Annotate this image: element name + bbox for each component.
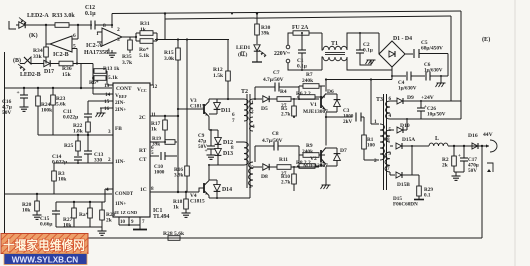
- svg-text:D17: D17: [44, 69, 54, 75]
- wire V4 emitter: [208, 196, 210, 199]
- svg-text:IC2-A: IC2-A: [86, 43, 103, 49]
- ground pin16: [96, 108, 106, 117]
- resistor R6: [297, 95, 321, 100]
- capacitor C7: [255, 83, 299, 100]
- svg-text:FU 2A: FU 2A: [292, 25, 309, 31]
- svg-text:D1 - D4: D1 - D4: [393, 36, 412, 42]
- wire rail F riser: [104, 194, 106, 202]
- label CONDT: [115, 192, 134, 197]
- wire right drop x451: [450, 16, 452, 101]
- node railC x187: [186, 38, 188, 40]
- wire CT stub: [150, 155, 159, 157]
- svg-text:CONT: CONT: [116, 86, 132, 92]
- T3 sec2: [386, 130, 391, 142]
- wire R31 right common: [156, 33, 158, 41]
- svg-text:240k: 240k: [302, 78, 313, 84]
- diode D16: [472, 143, 478, 149]
- wire T2 P2 top stub: [236, 141, 244, 143]
- svg-text:50V: 50V: [2, 110, 11, 116]
- svg-text:1.5k: 1.5k: [213, 73, 224, 79]
- label R5 2.7k: [281, 106, 290, 117]
- svg-text:0.1: 0.1: [424, 192, 431, 198]
- node rail F Ra: [89, 201, 91, 203]
- label pin 2: [108, 157, 111, 163]
- svg-text:50V: 50V: [468, 168, 477, 174]
- label T2 pin 8: [231, 145, 234, 151]
- svg-text:RT: RT: [139, 148, 147, 154]
- svg-text:1: 1: [251, 100, 254, 106]
- node L C17: [463, 145, 465, 147]
- node pin2 C14: [77, 162, 79, 164]
- T2 winding S1: [250, 99, 253, 113]
- label IC1 TL494: [153, 208, 170, 220]
- label T2: [241, 89, 248, 95]
- node D10 junction: [406, 118, 408, 120]
- label 2IN-: [115, 100, 125, 106]
- label D5: [261, 106, 268, 112]
- label pin 9: [131, 220, 134, 225]
- svg-text:D15B: D15B: [397, 182, 410, 188]
- node D15 join: [411, 145, 413, 147]
- label R3 10k: [58, 171, 66, 183]
- wire 24V return: [390, 118, 461, 120]
- terminal AC bottom: [286, 59, 290, 63]
- wire opamp out: [122, 36, 136, 38]
- node V4 coll join: [208, 164, 210, 166]
- svg-text:68μ/450V: 68μ/450V: [421, 46, 443, 52]
- svg-text:1C: 1C: [140, 187, 147, 193]
- ground R26: [33, 214, 42, 219]
- label Rb*: [89, 80, 99, 86]
- svg-text:LED1: LED1: [236, 45, 251, 51]
- svg-text:10μ/50V: 10μ/50V: [427, 111, 446, 117]
- svg-text:33k: 33k: [33, 54, 43, 60]
- transistor V2: [321, 148, 326, 165]
- wire C5 drop: [447, 54, 449, 77]
- node rail F R27: [73, 201, 75, 203]
- node FB R25: [77, 134, 79, 136]
- label R29 0.1: [424, 187, 433, 198]
- ground C4C6: [436, 76, 446, 87]
- label pin 16: [104, 106, 110, 112]
- label R24 100k: [41, 102, 52, 114]
- T2 winding S3: [249, 162, 254, 186]
- label T3 pin 9: [389, 151, 392, 157]
- wire pin4 drop: [104, 189, 106, 194]
- svg-text:IC2-B: IC2-B: [53, 52, 69, 58]
- node rail D R23: [52, 87, 54, 89]
- label T3 pin 4: [389, 113, 392, 119]
- svg-text:16: 16: [104, 106, 110, 112]
- wire R9R8 left: [298, 155, 300, 167]
- capacitor C12: [91, 21, 112, 30]
- wire V1 emitter: [325, 113, 327, 118]
- svg-text:VREF: VREF: [115, 93, 127, 99]
- capacitor C14: [74, 157, 82, 163]
- label 27: [281, 171, 287, 177]
- wire sec4 wire: [390, 174, 395, 176]
- node C12 right junction: [77, 24, 79, 26]
- wire railA to pin8: [111, 14, 113, 29]
- label T2 pin 2: [251, 109, 254, 115]
- ground output: [452, 172, 461, 180]
- svg-text:1000: 1000: [154, 169, 165, 175]
- resistor R1: [362, 135, 367, 160]
- svg-text:2.7k: 2.7k: [281, 111, 290, 117]
- label R27 10k: [63, 217, 73, 229]
- svg-text:MJE13007: MJE13007: [303, 163, 328, 169]
- resistor R15: [176, 40, 181, 61]
- capacitor C9: [205, 130, 216, 154]
- resistor R36: [57, 61, 93, 66]
- label R36 15k: [62, 66, 72, 78]
- svg-text:1k: 1k: [151, 127, 157, 133]
- label Ro* 5.1k: [139, 47, 150, 59]
- diode D11: [214, 99, 221, 114]
- node V3 base x178: [177, 108, 179, 110]
- svg-text:3.9k: 3.9k: [174, 172, 183, 178]
- label C17 470u 50V: [468, 157, 479, 174]
- wire C4C6 row: [392, 75, 406, 77]
- resistor R28: [100, 202, 105, 227]
- svg-text:4: 4: [252, 124, 255, 130]
- label T3 pin 1: [374, 119, 377, 125]
- label C5 68u450V: [421, 40, 443, 52]
- diode D5: [263, 96, 277, 102]
- wire T1 out bottom: [347, 57, 392, 70]
- label R11: [279, 157, 288, 163]
- label RT: [139, 148, 147, 154]
- label HA17358: [84, 50, 108, 56]
- node 1C R18: [185, 191, 187, 193]
- svg-text:2IN-: 2IN-: [115, 100, 125, 106]
- capacitor C4: [407, 72, 425, 81]
- svg-text:44V: 44V: [483, 132, 493, 138]
- wire V1 collector: [325, 80, 327, 92]
- node pin11 x178: [177, 115, 179, 117]
- label R18 1k: [173, 199, 183, 211]
- label C3 1000 2kV: [343, 108, 354, 125]
- label node (K): [29, 32, 38, 39]
- wire pin13 stub: [107, 84, 113, 86]
- label D13: [223, 151, 233, 157]
- svg-text:3: 3: [108, 129, 111, 135]
- svg-text:240k: 240k: [302, 149, 313, 155]
- wire bridge top in: [378, 33, 380, 54]
- node bridge c4row: [391, 75, 393, 77]
- node rail E R26: [36, 193, 38, 195]
- wire D7 bottom: [326, 165, 337, 167]
- wire D13 to T2: [218, 164, 244, 166]
- svg-text:15: 15: [104, 99, 110, 105]
- svg-text:WWW.SYLXB.CN: WWW.SYLXB.CN: [12, 256, 78, 265]
- label T2 pin 5: [251, 165, 254, 171]
- resistor R4: [277, 97, 319, 102]
- resistor R25: [76, 135, 81, 156]
- wire T1 in top: [322, 33, 323, 50]
- label 2C: [139, 115, 146, 121]
- node V1 collector rail: [325, 78, 327, 80]
- label V1: [310, 102, 317, 108]
- diode D12: [215, 130, 222, 144]
- label C9 47u 50V: [198, 133, 207, 150]
- label R33 3.0k: [52, 13, 75, 19]
- label C10 1000: [154, 164, 165, 175]
- resistor R33: [30, 23, 92, 28]
- capacitor C26: [417, 101, 427, 119]
- label VREF: [115, 93, 127, 99]
- label R2 2k: [442, 157, 449, 169]
- LED D LED2-A: [16, 18, 30, 29]
- label 1C: [140, 187, 147, 193]
- node railA R30: [256, 12, 258, 14]
- wire R36 to rail D: [80, 64, 82, 89]
- svg-text:LED2-B: LED2-B: [20, 72, 41, 78]
- label C4 1u630V: [398, 80, 417, 91]
- label E1E2GND: [114, 210, 138, 215]
- svg-text:CT: CT: [139, 157, 147, 163]
- svg-text:0.022μ: 0.022μ: [63, 115, 78, 121]
- svg-text:V2: V2: [310, 156, 317, 162]
- node midpoint: [325, 116, 327, 118]
- svg-text:50V: 50V: [198, 144, 207, 150]
- node 24V C26: [420, 100, 422, 102]
- svg-text:(B): (B): [13, 57, 21, 64]
- svg-text:7: 7: [232, 118, 235, 124]
- label R10 2.7k: [281, 174, 290, 185]
- svg-text:0.1μ: 0.1μ: [85, 11, 96, 17]
- label C7: [273, 70, 280, 76]
- wire D15B riser: [411, 146, 413, 175]
- label pin 5 IC2-B: [73, 44, 76, 50]
- wire R31 left common: [135, 33, 137, 41]
- svg-text:十堰家电维修网: 十堰家电维修网: [3, 238, 85, 253]
- resistor R19: [165, 140, 177, 145]
- T3 sec1: [386, 101, 391, 119]
- watermark red band: [1, 234, 88, 254]
- label +24V: [421, 95, 434, 101]
- label R12 1.5k: [213, 67, 224, 79]
- wire R7R6 right: [320, 86, 322, 97]
- resistor R2: [452, 146, 457, 172]
- svg-text:8: 8: [103, 23, 106, 29]
- svg-text:FB: FB: [115, 126, 122, 132]
- LED D LED1: [254, 45, 266, 62]
- node R13 left: [92, 77, 94, 79]
- node railC R15: [177, 38, 179, 40]
- resistor R30: [255, 12, 260, 44]
- resistor R27: [72, 202, 77, 227]
- ground R28: [98, 227, 107, 235]
- wire pin16 stub: [100, 107, 113, 109]
- svg-text:Ra*: Ra*: [79, 212, 89, 218]
- wire feedback riser: [481, 146, 483, 238]
- wire D6 bottom: [326, 111, 337, 113]
- wire RT stub: [150, 141, 165, 143]
- bridge D1-D4: [379, 41, 405, 67]
- label MJE13007: [303, 163, 328, 169]
- page edge line: [514, 0, 516, 266]
- svg-text:2IN+: 2IN+: [115, 107, 126, 113]
- label C1 0.1u: [297, 58, 307, 70]
- diode D10: [397, 127, 407, 133]
- wire rail B drop from rail A: [164, 14, 166, 40]
- svg-text:R33 3.0k: R33 3.0k: [52, 13, 75, 19]
- wire R29 branch: [412, 174, 419, 176]
- wire right drop x461: [460, 11, 462, 119]
- ground pin7: [133, 225, 147, 230]
- resistor R7: [299, 84, 321, 89]
- node pin1 rail: [370, 78, 372, 80]
- node pin8 top: [111, 24, 113, 26]
- svg-text:3: 3: [117, 37, 120, 43]
- label L: [435, 136, 439, 142]
- svg-text:1.8k: 1.8k: [73, 129, 83, 135]
- label R23 5.6k: [56, 96, 66, 108]
- resistor Ra*: [88, 202, 93, 227]
- label IC2-B: [53, 52, 69, 58]
- ground V2 emitter: [321, 184, 331, 189]
- svg-text:(红): (红): [238, 50, 247, 58]
- label D17: [44, 69, 54, 75]
- svg-text:R28 5.6k: R28 5.6k: [163, 231, 185, 237]
- node R12 bottom: [227, 98, 229, 100]
- resistor Rb*: [93, 76, 107, 81]
- wire V4 bottom: [209, 197, 250, 199]
- resistor R17: [163, 116, 168, 142]
- wire R9R8 right: [320, 155, 322, 166]
- node railA x232: [231, 13, 233, 15]
- node opamp out: [135, 36, 137, 38]
- node pin9 join: [128, 224, 130, 226]
- label C6 1u630V: [424, 62, 443, 73]
- label Vcc: [137, 87, 147, 93]
- svg-text:D9: D9: [407, 95, 414, 101]
- wire sec3 wire: [390, 145, 393, 147]
- node out: [481, 145, 483, 147]
- ground C9: [207, 153, 216, 159]
- label Ra*: [79, 212, 89, 218]
- label R26 10k: [22, 202, 32, 214]
- transistor V4: [204, 181, 209, 196]
- label LED2-B: [20, 72, 41, 78]
- label D1 - D4: [393, 36, 412, 42]
- label R15 3.0k: [164, 50, 175, 62]
- wire base bus top: [253, 98, 262, 100]
- diode D13: [215, 145, 222, 165]
- label T2 pin 3: [249, 184, 252, 190]
- wire R13 right common: [106, 71, 108, 85]
- label pin 14: [105, 92, 111, 98]
- wire IC2-A in- stub: [97, 31, 102, 33]
- label R9: [306, 143, 313, 149]
- T1 winding top: [323, 46, 347, 50]
- svg-text:2C: 2C: [139, 115, 146, 121]
- svg-text:1μ/630V: 1μ/630V: [424, 67, 443, 73]
- label C2 0.1u: [363, 42, 373, 54]
- diode D14: [214, 180, 221, 198]
- wire pin1 stub: [371, 123, 379, 125]
- diode D9: [397, 98, 461, 104]
- node C1 bottom: [301, 69, 303, 71]
- label LED2-A: [27, 13, 49, 19]
- ground C16: [20, 104, 29, 111]
- wire FB net: [38, 134, 113, 136]
- wire bridge out right: [405, 53, 413, 55]
- svg-text:10k: 10k: [22, 208, 30, 214]
- label T2 pin 1: [251, 100, 254, 106]
- label C8: [272, 131, 279, 137]
- svg-text:11: 11: [151, 112, 156, 118]
- svg-text:(E): (E): [482, 36, 490, 43]
- node D14 bot: [216, 197, 218, 199]
- svg-text:D5: D5: [261, 106, 268, 112]
- wire sec3 bottom stub: [389, 172, 391, 175]
- svg-text:0.1μ: 0.1μ: [363, 48, 373, 54]
- svg-text:0.66μ: 0.66μ: [40, 222, 53, 228]
- svg-text:C8: C8: [272, 131, 279, 137]
- wire T2 pin3 riser: [249, 186, 251, 198]
- wire R2C17 bottom: [454, 171, 464, 173]
- label R17 1k: [151, 121, 161, 133]
- label pin 1: [96, 31, 99, 37]
- label FB: [115, 126, 122, 132]
- svg-text:5.6k: 5.6k: [56, 102, 66, 108]
- wire T1 in bottom: [322, 57, 323, 70]
- label pin 6 IC2-B: [73, 33, 76, 39]
- label pin 8: [151, 186, 154, 192]
- label D8: [261, 174, 268, 180]
- label pin 10: [120, 220, 126, 225]
- label R35 3.7k: [122, 54, 133, 66]
- svg-text:T3: T3: [376, 97, 383, 103]
- wire R13 left common: [92, 64, 94, 95]
- label 240k: [302, 149, 313, 155]
- label R8 2.2: [296, 160, 311, 166]
- label pin 11: [151, 112, 156, 118]
- capacitor C3: [356, 113, 364, 122]
- wire node K down: [46, 25, 50, 44]
- label R25: [64, 143, 74, 149]
- wire V4 coll to bus: [209, 164, 218, 166]
- label pin 3: [117, 37, 120, 43]
- label T3 pin 7: [387, 166, 390, 172]
- svg-text:10: 10: [120, 220, 126, 225]
- svg-text:2: 2: [251, 109, 254, 115]
- svg-text:100: 100: [367, 142, 375, 148]
- capacitor C8: [255, 142, 299, 163]
- node C1 top: [301, 32, 303, 34]
- connector out2: [487, 163, 493, 172]
- label C11 0.022u: [63, 109, 78, 121]
- label D14: [222, 187, 232, 193]
- svg-text:T2: T2: [241, 89, 248, 95]
- svg-text:4: 4: [106, 187, 109, 193]
- node R6 base: [298, 98, 300, 100]
- svg-text:Rb*: Rb*: [89, 80, 99, 86]
- label D7: [340, 148, 347, 154]
- svg-text:(K): (K): [29, 32, 38, 39]
- label FU 2A: [292, 25, 309, 31]
- capacitor C10: [161, 152, 177, 160]
- label R13 1k: [103, 66, 119, 72]
- resistor R16: [185, 44, 190, 192]
- label R30 39k: [261, 25, 271, 37]
- wire AC top to fuse: [288, 33, 293, 45]
- node R5 top: [293, 98, 295, 100]
- label LED1: [236, 45, 251, 51]
- label R1 100: [367, 137, 375, 148]
